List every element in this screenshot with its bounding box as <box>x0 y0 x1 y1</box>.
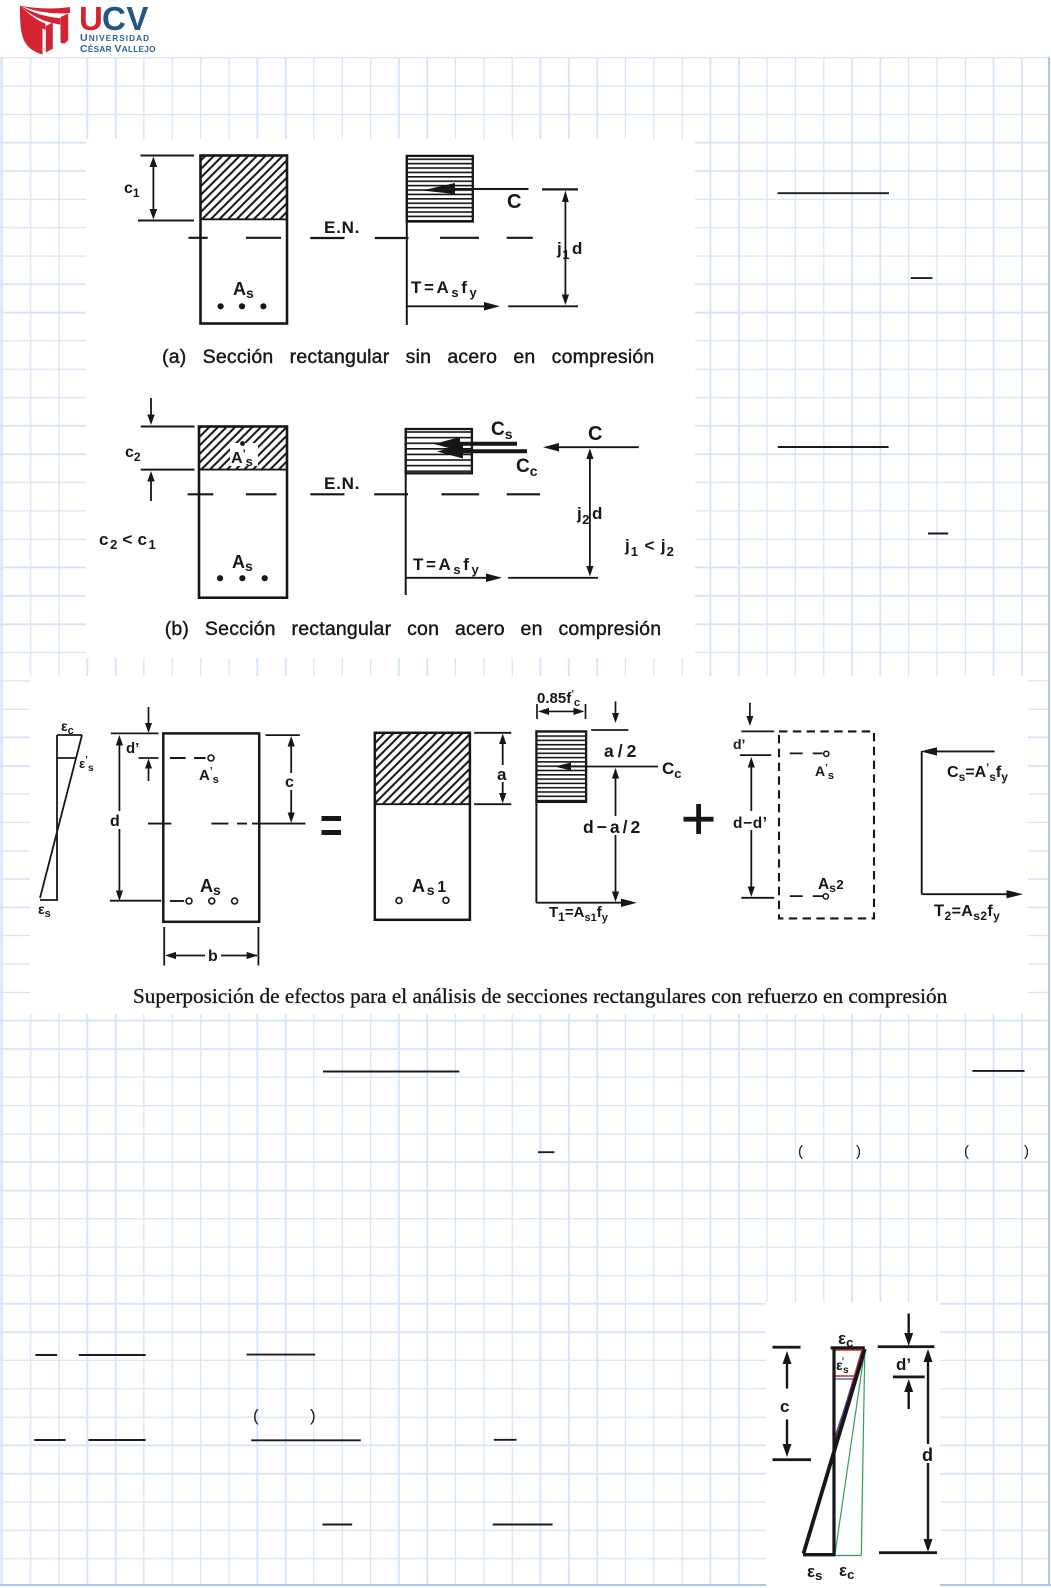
neutral axis dashes (b) <box>188 493 540 495</box>
d' top bar <box>878 1345 935 1348</box>
logo book middle strip <box>46 23 53 53</box>
c dimension bottom bar <box>773 1458 812 1461</box>
d-d' dimension <box>750 762 752 892</box>
neutral axis dashes fig3 <box>148 823 306 825</box>
svg-text:(: ( <box>964 1143 969 1160</box>
c dimension bottom arrow <box>786 1420 788 1447</box>
C arrow line (b) <box>556 446 639 448</box>
svg-text:): ) <box>310 1406 316 1425</box>
T arrow (b) <box>406 577 489 579</box>
plus sign <box>684 817 714 822</box>
rebar dots (a) <box>218 303 224 309</box>
d dimension line <box>118 740 120 896</box>
As2 row (dashed rect) <box>790 895 823 897</box>
stray rule y1071 right <box>972 1070 1024 1072</box>
stray rule y1152 <box>538 1151 554 1153</box>
d dimension line <box>927 1356 929 1546</box>
stress block fig3 <box>536 731 586 802</box>
axis line below stress block <box>535 802 537 903</box>
logo book top arc outer <box>20 6 70 14</box>
beam section rectangle (a) <box>201 156 288 324</box>
c dimension fig3 <box>266 734 300 736</box>
green reference triangle <box>835 1350 865 1556</box>
d bottom bar <box>879 1551 937 1554</box>
c dimension top arrow <box>783 1351 792 1364</box>
Cc arrow fig3 <box>568 766 658 768</box>
d' lower arrow <box>148 765 150 781</box>
c dimension top bar <box>773 1346 801 1349</box>
d' top arrow <box>148 707 150 726</box>
0.85fc dimension arrows <box>537 704 586 719</box>
rebar dots (b) <box>217 575 223 581</box>
A's row (dashed rect) <box>790 752 823 754</box>
Cs thick arrow <box>452 442 517 446</box>
top black bar <box>831 1346 865 1349</box>
black vertical edge <box>832 1349 835 1555</box>
d' up arrow <box>904 1379 913 1392</box>
Cs arrow right <box>934 750 995 752</box>
d-a/2 dimension <box>615 773 617 897</box>
logo book third arc <box>20 6 46 31</box>
red strain triangle <box>834 1350 863 1446</box>
stray rules row y1524 <box>323 1524 553 1526</box>
d' extension lines <box>111 733 159 758</box>
d' extension lines (dashed rect) <box>740 731 774 755</box>
b dimension fig3 <box>164 927 258 966</box>
scan B white patch : superposition figure <box>30 676 1028 1014</box>
a/2 top arrow <box>615 701 617 716</box>
c2 dimension extension lines <box>141 427 195 470</box>
j1d dimension (a) <box>542 188 578 190</box>
svg-text:(: ( <box>798 1143 803 1160</box>
right page border line <box>1048 57 1050 1586</box>
logo book big panel <box>20 6 43 55</box>
hatched compression block (a) <box>201 156 288 220</box>
stray rule y447 <box>778 446 889 448</box>
blue strain triangle <box>835 1379 855 1437</box>
beam section rect fig3 <box>163 733 259 921</box>
stray rule y193 <box>778 192 890 194</box>
UCV logo <box>0 0 200 62</box>
equals sign <box>322 816 342 821</box>
label A's halo <box>230 443 258 466</box>
d' top arrow (dashed rect) <box>749 703 751 719</box>
beam2 rect <box>375 733 470 920</box>
bottom page border line <box>0 1584 1051 1586</box>
stray rules row y1355 <box>35 1354 315 1356</box>
vertical axis line (b) <box>405 429 407 595</box>
c1 dimension extension lines <box>138 156 194 221</box>
j2d dimension <box>589 453 591 572</box>
svg-text:(: ( <box>253 1406 259 1425</box>
hatched block beam2 <box>375 733 470 804</box>
T2 arrow right <box>922 893 1010 895</box>
T1 arrow fig3 <box>536 902 625 904</box>
Cc thick arrow <box>455 449 527 453</box>
strain diagram outline <box>40 735 82 900</box>
vertical line right <box>921 751 923 894</box>
C resultant arrow (a) <box>422 183 455 194</box>
stray rule y278 <box>911 277 933 279</box>
logo book second arc <box>20 6 60 25</box>
c2 lower arrow (pointing up) <box>150 478 152 501</box>
hatched compression strip (b) <box>199 427 287 470</box>
A's row dashes fig3 <box>170 757 206 759</box>
d bottom extension line <box>110 900 161 902</box>
T arrow (a) <box>407 305 487 307</box>
bottom black bar <box>803 1553 836 1556</box>
logo book right strip <box>61 14 69 44</box>
c2 upper arrow (pointing down) <box>150 398 152 417</box>
vertical axis line (a) <box>406 156 408 325</box>
scan C white patch : strain diagram <box>766 1302 940 1588</box>
dashed rectangle As2 <box>779 731 874 918</box>
svg-text:): ) <box>856 1143 861 1160</box>
c1 dimension arrow <box>152 161 154 215</box>
neutral axis dashes (a) <box>189 237 533 239</box>
d' down arrow <box>908 1314 910 1338</box>
d' mid bar <box>893 1376 925 1379</box>
A's apostrophe dot (b) <box>240 441 245 446</box>
a dimension <box>474 733 511 804</box>
As row fig3 <box>170 900 184 902</box>
black strain diagonal <box>804 1349 865 1554</box>
scan A white patch : figures (a) and (b) <box>86 139 695 658</box>
label d fig3 <box>107 811 125 829</box>
stress block (b) <box>406 429 472 473</box>
label d-a/2 <box>581 816 642 835</box>
stray rule y533 <box>928 533 948 535</box>
svg-text:): ) <box>1024 1143 1029 1160</box>
stray rule y1071 left <box>323 1071 459 1073</box>
stress block (a) <box>407 156 473 222</box>
stray rules row y1440 <box>34 1439 516 1442</box>
d-d' bottom extension <box>741 897 774 899</box>
beam section rectangle (b) <box>199 427 287 598</box>
label d dim <box>920 1444 937 1463</box>
